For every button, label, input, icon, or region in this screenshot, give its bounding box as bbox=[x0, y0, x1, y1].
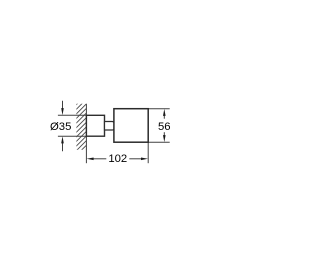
svg-text:102: 102 bbox=[108, 153, 127, 165]
svg-text:56: 56 bbox=[158, 121, 171, 133]
svg-text:Ø35: Ø35 bbox=[50, 121, 71, 133]
